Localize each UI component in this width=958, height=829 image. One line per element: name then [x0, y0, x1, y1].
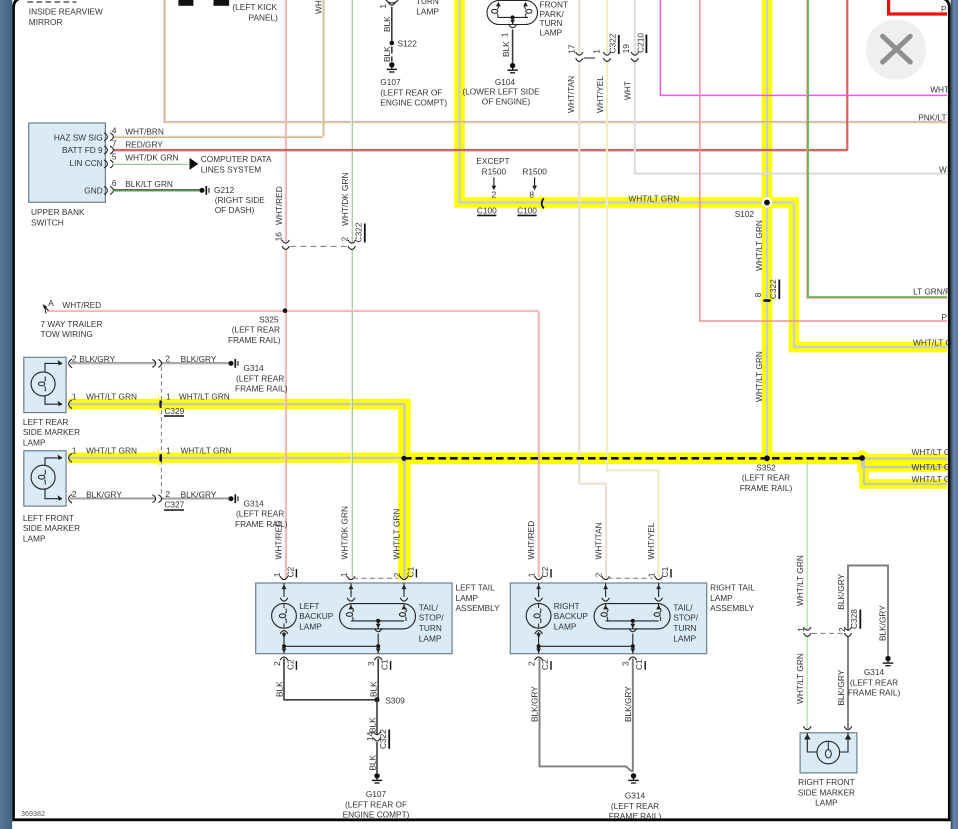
svg-text:WHT/LT GRN: WHT/LT GRN: [754, 220, 764, 271]
component - upper bank switch box: [29, 123, 106, 202]
svg-text:6: 6: [112, 178, 117, 188]
wire core - main horizontal: [460, 203, 794, 204]
pin 2 at top of right assembly: [602, 576, 610, 579]
svg-text:UPPER BANK: UPPER BANK: [31, 207, 85, 217]
svg-text:LAMP: LAMP: [23, 534, 46, 544]
svg-text:S122: S122: [398, 39, 418, 49]
wire - BLK from front park/turn lamp: [512, 29, 514, 62]
svg-text:C100: C100: [517, 205, 537, 215]
connector C329 pin 2: [156, 362, 161, 365]
wire - BLK from turn lamp: [391, 7, 393, 43]
svg-text:R1500: R1500: [482, 167, 507, 177]
svg-text:WHT/LT GRN: WHT/LT GRN: [795, 653, 805, 704]
svg-text:WHT/LT G: WHT/LT G: [912, 447, 951, 457]
wire - WHT/YEL vertical with jog: [607, 0, 659, 579]
svg-text:WHT/LT GRN: WHT/LT GRN: [86, 392, 137, 402]
pin 2 bottom of right assembly: [535, 657, 543, 660]
svg-text:1: 1: [499, 32, 509, 37]
svg-text:S102: S102: [735, 209, 755, 219]
highlight band - dashed traced segment: [404, 453, 862, 465]
svg-text:STOP/: STOP/: [419, 613, 444, 623]
wire - BLK/LT GRN to ground G212: [113, 189, 200, 191]
svg-text:2: 2: [72, 354, 77, 364]
highlight band - right branch drop: [789, 203, 800, 348]
node S309: [375, 697, 380, 702]
svg-text:ASSEMBLY: ASSEMBLY: [710, 603, 755, 613]
svg-text:WHT/LT G: WHT/LT G: [913, 338, 952, 348]
pin 1 of left rear side marker lamp: [69, 400, 73, 409]
svg-text:2: 2: [837, 627, 847, 632]
pin 1 at top of right assembly: [655, 576, 663, 579]
highlight band - right branch horizontal to edge: [789, 342, 947, 353]
wire - BLK/GRY from right assembly pin 3: [632, 659, 634, 773]
svg-text:3: 3: [621, 661, 631, 666]
highlight sparkle at C329 connector: [149, 394, 169, 414]
wire - BLK/GRY to G314 second: [70, 497, 229, 499]
pin 3 bottom of left assembly: [374, 657, 382, 660]
highlight sparkle at C327 connector: [149, 448, 169, 468]
svg-text:1: 1: [527, 572, 537, 577]
wire core - fan out wires: [860, 457, 947, 459]
ground G107 bottom: [374, 773, 379, 778]
svg-text:(LOWER LEFT SIDE: (LOWER LEFT SIDE: [462, 87, 540, 97]
svg-text:1: 1: [378, 4, 388, 9]
connector C322 pin 14: [375, 735, 378, 741]
component - left front side marker lamp box: [24, 451, 66, 506]
svg-text:FRAME RAIL): FRAME RAIL): [848, 688, 901, 698]
svg-text:WHT/LT GRN: WHT/LT GRN: [754, 351, 764, 402]
component - left rear side marker lamp box: [24, 357, 66, 412]
svg-text:BLK/GRY: BLK/GRY: [530, 686, 540, 722]
wire - WHT vertical then right to edge: [635, 0, 947, 174]
svg-text:(LEFT REAR OF: (LEFT REAR OF: [380, 87, 442, 97]
svg-text:STOP/: STOP/: [673, 613, 698, 623]
wire - WHT/BRN riser from upper bank switch: [322, 0, 324, 137]
red callout box cut off at top right: [889, 0, 947, 14]
svg-text:5: 5: [112, 152, 117, 162]
svg-text:INSIDE REARVIEW: INSIDE REARVIEW: [29, 7, 103, 17]
svg-text:BLK: BLK: [382, 16, 392, 32]
svg-text:C1: C1: [380, 659, 390, 670]
svg-text:LAMP: LAMP: [456, 593, 479, 603]
svg-text:MIRROR: MIRROR: [29, 17, 63, 27]
svg-text:WHT/LT GRN: WHT/LT GRN: [86, 445, 137, 455]
svg-text:BLK/GRY: BLK/GRY: [877, 605, 887, 641]
wire - WHT/LT GRN to right front side marker: [806, 462, 808, 729]
svg-text:WHT: WHT: [622, 81, 632, 100]
svg-text:3: 3: [366, 661, 376, 666]
svg-text:LAMP: LAMP: [299, 621, 322, 631]
internal ground bus of right assembly: [537, 644, 541, 648]
svg-text:1: 1: [166, 392, 171, 402]
svg-text:2: 2: [392, 572, 402, 577]
connector dash between C2 and C1 halves: [353, 577, 398, 579]
svg-text:C329: C329: [164, 406, 184, 416]
svg-text:1: 1: [592, 49, 602, 54]
svg-text:S309: S309: [385, 696, 405, 706]
wire - PNK/LT GRN riser at top left: [163, 0, 165, 122]
svg-text:8: 8: [753, 292, 763, 297]
pin 6 of upper bank switch: [107, 189, 112, 192]
ground splice G212: [200, 188, 205, 193]
svg-text:WHT/RED: WHT/RED: [526, 521, 536, 560]
svg-text:G314: G314: [864, 667, 885, 677]
svg-text:C100: C100: [477, 205, 497, 215]
svg-text:LINES SYSTEM: LINES SYSTEM: [201, 164, 261, 174]
highlight band - WHT/LT GRN riser from top: [454, 0, 465, 203]
lamp - left backup lamp: [280, 598, 288, 601]
highlight blob at dashed wire end junction: [855, 451, 870, 466]
svg-text:TAIL/: TAIL/: [419, 602, 439, 612]
wire core - left rear side marker row: [68, 403, 405, 405]
svg-text:BACKUP: BACKUP: [299, 611, 334, 621]
svg-text:WHT/YEL: WHT/YEL: [595, 76, 605, 113]
ground G314 bottom: [631, 773, 636, 778]
wire - WHT/DK GRN vertical to left tail lamp: [350, 0, 352, 578]
svg-text:LEFT TAIL: LEFT TAIL: [456, 583, 496, 593]
svg-text:2: 2: [594, 572, 604, 577]
svg-text:1: 1: [339, 572, 349, 577]
svg-text:4: 4: [112, 126, 117, 136]
svg-text:RED/GRY: RED/GRY: [125, 140, 163, 150]
wire - BLK from left assembly pin 3: [377, 659, 379, 700]
wire - WHT magenta-coded line top right: [660, 0, 947, 95]
svg-text:ENGINE COMPT): ENGINE COMPT): [343, 810, 410, 820]
svg-text:TURN: TURN: [419, 623, 442, 633]
wire - BLK/GRY from right front side marker: [848, 566, 888, 729]
wire - BLK dashed to ground: [391, 47, 393, 54]
svg-text:C322: C322: [378, 729, 388, 749]
svg-text:BLK: BLK: [367, 754, 377, 770]
highlight band - left rear side marker wire row: [68, 399, 411, 410]
svg-text:C2: C2: [540, 659, 550, 670]
wire - WHT/DK GRN to computer data lines: [113, 162, 189, 164]
wire - BLK from left assembly pin 2: [284, 659, 377, 700]
lamp - front park/turn lamp: [487, 1, 538, 25]
svg-text:OF DASH): OF DASH): [215, 205, 255, 215]
svg-text:PNK/LT: PNK/LT: [918, 113, 946, 123]
svg-text:W: W: [939, 165, 947, 175]
arrow - computer data lines system: [190, 158, 199, 170]
svg-text:WHT/BRN: WHT/BRN: [125, 127, 164, 137]
node S352: [764, 455, 770, 461]
svg-text:WHT/LT GRN: WHT/LT GRN: [392, 509, 402, 560]
svg-text:BLK/GRY: BLK/GRY: [181, 354, 217, 364]
wire - PNK/LT GRN horizontal to right edge: [164, 121, 947, 123]
svg-text:BLK: BLK: [501, 41, 511, 57]
wire - dashed traced segment over highlight: [404, 457, 862, 460]
svg-text:TOW WIRING: TOW WIRING: [41, 329, 93, 339]
svg-text:17: 17: [566, 44, 576, 54]
svg-text:(LEFT REAR: (LEFT REAR: [236, 509, 284, 519]
svg-text:LAMP: LAMP: [540, 28, 563, 38]
connector line C329/C327: [160, 367, 162, 495]
svg-text:WHT/DK GRN: WHT/DK GRN: [125, 153, 178, 163]
svg-text:(LEFT REAR OF: (LEFT REAR OF: [345, 799, 407, 809]
svg-text:S325: S325: [259, 314, 279, 324]
node - side marker junction on traced wire: [401, 456, 406, 461]
svg-text:C328: C328: [849, 609, 859, 629]
svg-text:C2: C2: [540, 566, 550, 577]
pin 1 at top of left assembly: [280, 576, 288, 579]
svg-text:A: A: [48, 298, 54, 308]
pin 2 of left front side marker lamp: [69, 494, 73, 503]
svg-text:LAMP: LAMP: [416, 7, 439, 17]
svg-text:LEFT REAR: LEFT REAR: [23, 417, 69, 427]
highlight sparkle at C322 connector on riser: [757, 290, 778, 311]
svg-text:G107: G107: [380, 77, 401, 87]
wire - WHT/RED drop to right tail lamp: [537, 311, 539, 578]
pin 2 bottom of left assembly: [280, 657, 288, 660]
svg-text:OF ENGINE): OF ENGINE): [482, 97, 531, 107]
svg-text:COMPUTER DATA: COMPUTER DATA: [201, 154, 272, 164]
connector C322 pin 8 on riser: [763, 299, 771, 302]
svg-text:LIN CCN: LIN CCN: [69, 158, 102, 168]
wire - BLK/GRY to G314: [70, 362, 229, 364]
svg-text:G212: G212: [214, 185, 235, 195]
svg-text:WHT/LT GRN: WHT/LT GRN: [795, 555, 805, 606]
wire core - left front side marker row: [68, 457, 405, 459]
svg-text:TURN: TURN: [416, 0, 439, 6]
svg-text:LT GRN/R: LT GRN/R: [913, 286, 951, 296]
arrow below except R1500: [493, 178, 495, 187]
svg-text:WHT/LT GRN: WHT/LT GRN: [179, 392, 230, 402]
node - fan junction at right: [859, 455, 865, 461]
svg-text:SIDE MARKER: SIDE MARKER: [798, 787, 855, 797]
svg-text:C1: C1: [405, 566, 415, 577]
svg-text:C322: C322: [608, 33, 618, 53]
highlight sparkle at C100 connector: [531, 194, 550, 213]
svg-text:LAMP: LAMP: [419, 633, 442, 643]
svg-text:WHT/DK GRN: WHT/DK GRN: [340, 506, 350, 559]
svg-text:LEFT: LEFT: [299, 601, 319, 611]
svg-text:WHT/RED: WHT/RED: [273, 521, 283, 560]
svg-text:8: 8: [529, 190, 534, 200]
svg-text:1: 1: [72, 445, 77, 455]
node S325: [283, 308, 288, 313]
svg-text:2: 2: [165, 489, 170, 499]
node S122: [390, 41, 395, 46]
svg-text:P: P: [941, 4, 947, 14]
svg-text:C327: C327: [164, 500, 184, 510]
svg-text:WHT: WHT: [314, 0, 324, 14]
close button: [866, 19, 926, 79]
svg-text:2: 2: [527, 661, 537, 666]
arrow below R1500: [534, 178, 536, 187]
svg-text:LAMP: LAMP: [23, 438, 46, 448]
svg-text:EXCEPT: EXCEPT: [476, 156, 509, 166]
svg-text:BLK/GRY: BLK/GRY: [836, 669, 846, 705]
svg-text:WHT/LT G: WHT/LT G: [912, 462, 951, 472]
svg-text:G104: G104: [495, 77, 516, 87]
svg-text:19: 19: [621, 44, 631, 54]
svg-text:SWITCH: SWITCH: [31, 218, 64, 228]
svg-text:WHT/TAN: WHT/TAN: [566, 76, 576, 113]
svg-text:WHT/LT G: WHT/LT G: [912, 474, 951, 484]
svg-text:BLK/GRY: BLK/GRY: [623, 686, 633, 722]
ground splice G314 second: [229, 496, 234, 501]
svg-text:1: 1: [796, 627, 806, 632]
ground G314 right: [885, 656, 890, 661]
svg-text:(LEFT REAR: (LEFT REAR: [742, 473, 790, 483]
svg-text:WHT/LT GRN: WHT/LT GRN: [181, 445, 232, 455]
connector C327 pin 1: [159, 454, 162, 462]
svg-text:WHT/RED: WHT/RED: [62, 300, 101, 310]
svg-text:C1: C1: [634, 659, 644, 670]
svg-text:FRAME RAIL): FRAME RAIL): [228, 335, 281, 345]
svg-text:(LEFT KICK: (LEFT KICK: [232, 2, 277, 12]
svg-text:BLK: BLK: [274, 681, 284, 697]
svg-text:WHT/YEL: WHT/YEL: [646, 522, 656, 559]
highlight band - traced riser from top through S102 to S352: [762, 0, 773, 458]
lamp - left turn lamp cut off at top: [385, 0, 400, 3]
svg-text:TURN: TURN: [673, 623, 696, 633]
svg-text:BLK: BLK: [367, 717, 377, 733]
svg-text:C210: C210: [635, 33, 645, 53]
wire - LT GRN/RED line right side: [807, 0, 947, 298]
svg-text:ENGINE COMPT): ENGINE COMPT): [380, 98, 447, 108]
svg-text:P: P: [942, 312, 948, 322]
highlight band - left front side marker wire row: [68, 453, 411, 464]
svg-text:LAMP: LAMP: [710, 593, 733, 603]
wire - WHT/RED vertical to left tail lamp: [284, 0, 286, 578]
wire - WHT/RED trailer tow feed: [47, 309, 539, 311]
svg-text:BLK/GRY: BLK/GRY: [836, 573, 846, 609]
ground G107 top: [389, 62, 394, 67]
right window bar: [951, 0, 958, 829]
svg-text:2: 2: [165, 354, 170, 364]
svg-text:C322: C322: [768, 279, 778, 299]
svg-text:BLK: BLK: [369, 681, 379, 697]
svg-text:LAMP: LAMP: [673, 633, 696, 643]
svg-text:2: 2: [72, 489, 77, 499]
svg-text:BATT FD 9: BATT FD 9: [62, 145, 103, 155]
wire - WHT/TAN vertical with jog: [579, 0, 606, 579]
highlight band - side marker riser to tail lamp: [398, 399, 411, 579]
svg-text:HAZ SW SIG: HAZ SW SIG: [54, 132, 103, 142]
svg-text:SIDE MARKER: SIDE MARKER: [23, 427, 80, 437]
svg-text:G314: G314: [625, 791, 646, 801]
wire - PNK salmon line right side: [700, 0, 947, 321]
wire core - side marker riser: [403, 404, 405, 578]
svg-text:16: 16: [274, 232, 284, 242]
svg-text:2: 2: [340, 236, 350, 241]
svg-text:1: 1: [166, 445, 171, 455]
svg-text:WHT/LT GRN: WHT/LT GRN: [628, 193, 679, 203]
svg-text:(LEFT REAR: (LEFT REAR: [611, 801, 659, 811]
pin 2 of left rear side marker lamp: [69, 359, 73, 368]
connector C328: [806, 630, 809, 636]
svg-text:1: 1: [272, 572, 282, 577]
svg-text:LAMP: LAMP: [554, 621, 577, 631]
component stub - black connector blocks at top: [178, 0, 193, 6]
svg-text:WHT/TAN: WHT/TAN: [594, 522, 604, 559]
svg-text:RIGHT: RIGHT: [554, 601, 580, 611]
wire - RED/GRY from BATT FD 9 up right side: [113, 0, 847, 150]
svg-text:7: 7: [112, 139, 117, 149]
pin 1 at top of right assembly: [535, 576, 543, 579]
pin 2 at top of left assembly: [400, 576, 408, 579]
highlight band - main horizontal WHT/LT GRN run: [454, 197, 799, 208]
wire - BLK to ground G107: [376, 742, 378, 773]
svg-text:2: 2: [492, 190, 497, 200]
connector C322 pins 16 and 2 mid left: [284, 243, 287, 249]
highlight sparkle at left tail lamp pin 2: [395, 566, 414, 585]
wire - BLK/GRY from right assembly pin 2: [540, 659, 632, 772]
svg-text:(LEFT REAR: (LEFT REAR: [236, 373, 284, 383]
lamp - right tail/stop/turn lamp: [594, 604, 670, 629]
svg-text:369382: 369382: [21, 809, 45, 818]
lamp - right backup lamp: [535, 598, 543, 601]
svg-text:WHT: WHT: [930, 84, 949, 94]
pin 7 of upper bank switch: [107, 148, 112, 151]
svg-text:G314: G314: [244, 498, 265, 508]
pin 1 at top of left assembly: [347, 576, 355, 579]
connector C327 pin 2: [156, 497, 161, 500]
svg-text:GND: GND: [84, 185, 102, 195]
svg-text:BLK: BLK: [382, 46, 392, 62]
svg-text:G107: G107: [366, 789, 387, 799]
pin 4 of upper bank switch: [107, 135, 112, 138]
svg-text:TAIL/: TAIL/: [673, 602, 693, 612]
internal ground bus of left assembly: [282, 644, 286, 648]
svg-text:1: 1: [647, 572, 657, 577]
svg-text:C1: C1: [660, 566, 670, 577]
svg-text:14: 14: [365, 731, 375, 741]
connector dash between C2 and C1 halves: [608, 577, 653, 579]
svg-text:LAMP: LAMP: [815, 798, 838, 808]
svg-text:FRAME RAIL): FRAME RAIL): [740, 483, 793, 493]
component - inside rearview mirror dashed box edge: [28, 1, 77, 3]
pin 5 of upper bank switch: [107, 162, 112, 165]
svg-text:PANEL): PANEL): [249, 12, 279, 22]
svg-text:G314: G314: [244, 363, 265, 373]
svg-text:1: 1: [72, 392, 77, 402]
ground splice G314 first: [229, 361, 234, 366]
svg-text:2: 2: [272, 661, 282, 666]
svg-text:BLK/LT GRN: BLK/LT GRN: [125, 179, 173, 189]
svg-text:LEFT FRONT: LEFT FRONT: [23, 513, 74, 523]
pin 1 of left front side marker lamp: [69, 454, 73, 463]
svg-text:7 WAY TRAILER: 7 WAY TRAILER: [41, 319, 103, 329]
component - right tail lamp assembly box: [510, 583, 706, 654]
connector C210 pin 19: [633, 55, 636, 61]
svg-text:(RIGHT SIDE: (RIGHT SIDE: [215, 195, 266, 205]
svg-text:WHT/DK GRN: WHT/DK GRN: [340, 173, 350, 226]
connector C329 pin 1: [159, 400, 162, 408]
highlight band - fan out wires at right edge: [860, 454, 947, 464]
wire core - right branch: [794, 204, 947, 347]
svg-text:S352: S352: [756, 462, 776, 472]
node S102: [762, 197, 772, 207]
svg-text:BLK/GRY: BLK/GRY: [181, 490, 217, 500]
svg-text:C322: C322: [354, 222, 364, 242]
svg-text:ASSEMBLY: ASSEMBLY: [456, 603, 501, 613]
svg-text:FRAME RAIL): FRAME RAIL): [235, 384, 288, 394]
svg-text:SIDE MARKER: SIDE MARKER: [23, 523, 80, 533]
svg-text:RIGHT TAIL: RIGHT TAIL: [710, 583, 755, 593]
svg-text:R1500: R1500: [522, 167, 547, 177]
svg-text:C2: C2: [285, 659, 295, 670]
svg-text:BACKUP: BACKUP: [554, 611, 589, 621]
wire - BLK down to C322: [376, 700, 378, 735]
component - left tail lamp assembly box: [256, 583, 452, 654]
pin 3 bottom of right assembly: [629, 657, 637, 660]
ground G104: [510, 63, 515, 68]
svg-text:RIGHT FRONT: RIGHT FRONT: [798, 777, 855, 787]
connector A - 7 way trailer tow wiring: [45, 306, 49, 311]
wire core - traced riser through S102: [766, 0, 768, 458]
